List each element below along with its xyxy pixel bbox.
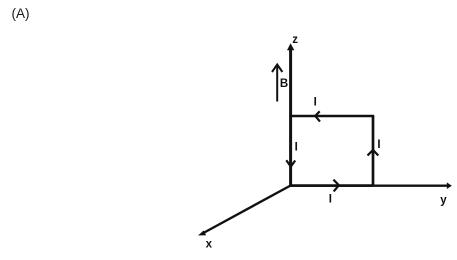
svg-text:B: B — [280, 78, 288, 90]
svg-text:I: I — [377, 139, 380, 151]
z-axis — [287, 43, 294, 185]
y-axis — [291, 182, 452, 189]
loop right side wire — [372, 116, 375, 186]
current arrow on bottom side (pointing right) — [333, 180, 339, 192]
current arrow on top side (pointing left) — [315, 111, 320, 121]
B field arrow — [272, 65, 282, 102]
x-axis — [198, 186, 291, 236]
svg-text:I: I — [314, 97, 317, 109]
current arrow on left side (pointing down) — [286, 160, 295, 166]
svg-text:y: y — [440, 195, 447, 207]
loop bottom side wire (overlaps y-axis) — [291, 184, 373, 187]
svg-text:I: I — [295, 142, 298, 154]
svg-text:I: I — [329, 194, 332, 206]
svg-text:z: z — [292, 34, 298, 46]
current arrow on right side (pointing up) — [368, 150, 379, 156]
loop top side wire — [289, 115, 374, 118]
svg-text:x: x — [206, 238, 213, 250]
label (A) — [12, 6, 30, 21]
